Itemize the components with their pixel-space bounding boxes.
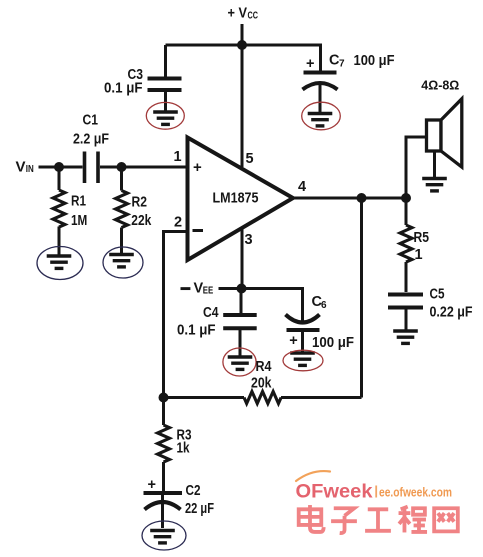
svg-text:R4: R4 [256, 359, 272, 375]
svg-text:C2: C2 [186, 483, 201, 499]
svg-text:0.22 μF: 0.22 μF [430, 305, 473, 321]
svg-text:4Ω-8Ω: 4Ω-8Ω [421, 78, 459, 93]
svg-text:100 μF: 100 μF [312, 335, 354, 351]
svg-text:CC: CC [248, 11, 259, 22]
svg-text:0.1 μF: 0.1 μF [104, 81, 143, 97]
svg-text:C1: C1 [83, 113, 99, 129]
svg-text:+ V: + V [228, 5, 248, 22]
svg-text:5: 5 [246, 151, 254, 167]
svg-text:+: + [148, 477, 156, 493]
svg-text:R1: R1 [71, 194, 86, 210]
svg-text:22 μF: 22 μF [185, 501, 214, 517]
svg-text:0.1 μF: 0.1 μF [177, 323, 216, 339]
svg-text:+: + [289, 333, 297, 349]
svg-text:1: 1 [415, 247, 423, 263]
svg-text:3: 3 [245, 232, 253, 248]
svg-text:2: 2 [174, 215, 182, 231]
svg-text:ee.ofweek.com: ee.ofweek.com [379, 485, 452, 500]
svg-text:7: 7 [339, 59, 345, 70]
svg-text:1k: 1k [177, 441, 191, 457]
svg-text:LM1875: LM1875 [213, 190, 259, 207]
svg-text:V: V [16, 159, 26, 176]
svg-text:100 μF: 100 μF [354, 53, 395, 69]
svg-text:1M: 1M [71, 213, 87, 229]
svg-text:R5: R5 [414, 230, 430, 246]
svg-text:+: + [306, 56, 314, 72]
svg-text:20k: 20k [251, 376, 272, 392]
svg-text:2.2 μF: 2.2 μF [73, 132, 109, 148]
svg-text:R2: R2 [132, 195, 148, 211]
svg-text:22k: 22k [131, 213, 152, 229]
svg-text:C5: C5 [430, 287, 445, 303]
svg-text:+: + [193, 159, 202, 176]
svg-text:OFweek: OFweek [296, 481, 373, 503]
svg-text:6: 6 [321, 300, 327, 311]
svg-text:C4: C4 [203, 305, 219, 321]
svg-text:4: 4 [298, 179, 306, 195]
svg-text:IN: IN [26, 164, 34, 175]
svg-text:1: 1 [174, 149, 182, 165]
svg-text:EE: EE [203, 286, 214, 297]
